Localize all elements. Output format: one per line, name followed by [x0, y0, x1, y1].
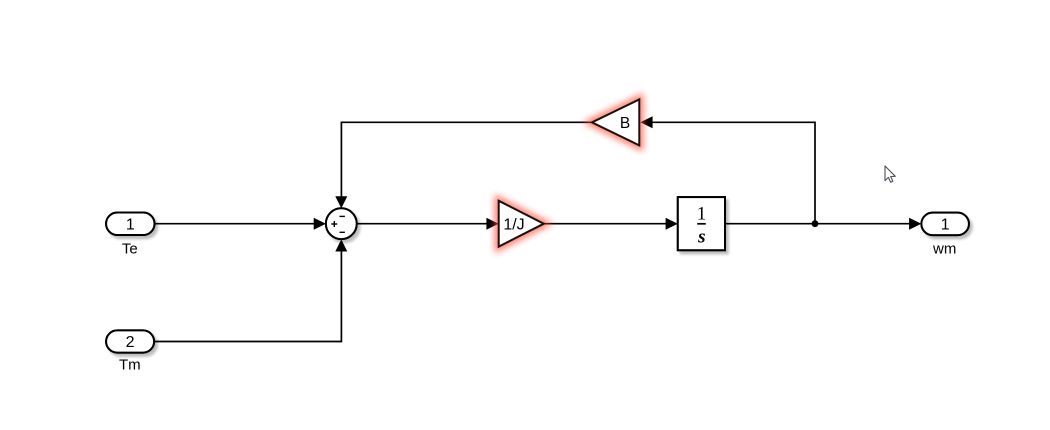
gain B block (highlighted red, points left)	[592, 99, 639, 145]
svg-text:wm: wm	[932, 240, 956, 257]
sum sign minus (bottom input)	[340, 231, 345, 233]
arrowhead into Outport wm	[909, 218, 921, 230]
arrowhead into Sum left	[314, 218, 326, 230]
wire Gain 1/J to Integrator	[544, 223, 667, 225]
svg-text:1: 1	[941, 217, 950, 234]
arrowhead into Gain B right side	[640, 116, 652, 128]
svg-text:B: B	[620, 115, 630, 132]
gain 1/J block (highlighted red)	[499, 201, 544, 247]
svg-text:2: 2	[126, 334, 135, 351]
svg-text:1: 1	[697, 204, 707, 225]
arrowhead into Gain 1/J	[486, 218, 498, 230]
svg-text:1: 1	[126, 216, 135, 233]
svg-text:Tm: Tm	[119, 356, 141, 373]
wire Gain B to Sum (left then down)	[341, 122, 592, 197]
wire Sum to Gain 1/J	[357, 223, 488, 225]
sum sign plus (left input)	[331, 221, 337, 227]
svg-text:Te: Te	[122, 241, 138, 258]
mouse cursor	[885, 166, 895, 182]
inport 2 Tm block	[106, 330, 154, 352]
wire Integrator to Outport wm	[725, 223, 910, 225]
arrowhead into Integrator	[666, 218, 678, 230]
arrowhead into Sum top	[335, 196, 347, 208]
inport 1 Te block	[106, 213, 154, 236]
svg-text:s: s	[697, 227, 705, 248]
outport 1 wm block	[921, 213, 969, 236]
sum sign minus (top input)	[340, 215, 345, 217]
arrowhead into Sum bottom	[335, 239, 347, 251]
wire Tm to Sum (right then up)	[154, 241, 342, 342]
svg-text:1/J: 1/J	[503, 216, 524, 233]
wire Te to Sum	[155, 223, 316, 225]
feedback wire branch up and left to Gain B	[653, 122, 816, 223]
branch node dot	[812, 220, 819, 227]
integrator block 1/s	[678, 197, 725, 250]
sum block	[326, 208, 357, 239]
